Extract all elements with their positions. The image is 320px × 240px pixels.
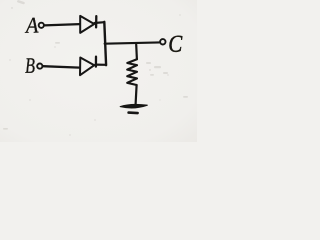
resistor R — [127, 45, 137, 105]
wire B to D2 anode — [43, 66, 80, 67]
wire D1 cathode to corner — [95, 21, 105, 24]
paper noise speckles (decorative) — [9, 7, 180, 135]
wire D2 cathode to junction — [96, 63, 106, 65]
wire A to D1 anode — [44, 24, 79, 25]
svg-text:A: A — [24, 13, 39, 38]
wire junction vertical bar — [104, 22, 106, 65]
input terminal B — [37, 64, 42, 69]
ground — [120, 104, 147, 113]
diode D1 — [80, 16, 96, 33]
svg-text:C: C — [168, 32, 183, 58]
diode D2 — [80, 57, 96, 76]
svg-text:B: B — [25, 53, 35, 78]
wire junction to output terminal — [105, 42, 160, 43]
output terminal C — [160, 39, 165, 44]
input terminal A — [39, 23, 44, 28]
faint print-through smudges (decorative) — [3, 0, 188, 130]
